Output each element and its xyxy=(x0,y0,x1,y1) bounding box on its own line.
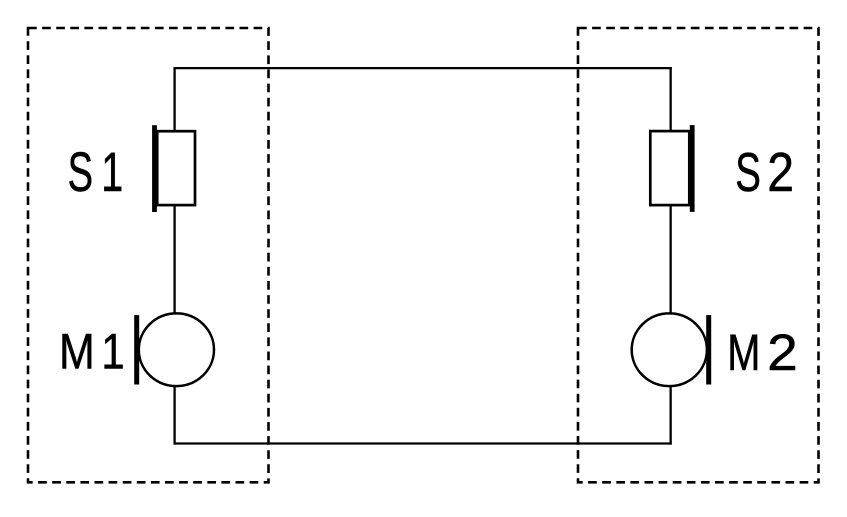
wire bottom horizontal xyxy=(174,442,672,444)
wire left bottom vertical xyxy=(173,385,175,445)
switch S2 body xyxy=(650,131,689,205)
svg-text:2: 2 xyxy=(767,324,798,381)
wire right middle vertical xyxy=(670,205,672,314)
wire right bottom vertical xyxy=(670,385,672,445)
svg-text:2: 2 xyxy=(767,141,794,203)
switch S1 side bar xyxy=(152,125,157,212)
svg-text:1: 1 xyxy=(101,140,123,203)
motor M2 side bar xyxy=(706,315,711,384)
svg-text:S: S xyxy=(735,141,761,203)
motor M2 body xyxy=(632,313,707,386)
switch S2 side bar xyxy=(690,125,695,212)
wire right top vertical xyxy=(670,67,672,131)
motor M1 side bar xyxy=(134,315,139,384)
svg-text:1: 1 xyxy=(101,324,124,380)
svg-text:M: M xyxy=(59,324,95,380)
svg-text:M: M xyxy=(727,324,760,381)
wire left middle vertical xyxy=(173,205,175,314)
enclosure box left (dashed) xyxy=(28,28,269,482)
switch S1 body xyxy=(157,131,195,205)
svg-text:S: S xyxy=(68,140,93,203)
wire top horizontal xyxy=(174,67,672,69)
motor M1 body xyxy=(139,313,214,386)
enclosure box right (dashed) xyxy=(578,28,819,482)
wire left top vertical xyxy=(173,67,175,131)
